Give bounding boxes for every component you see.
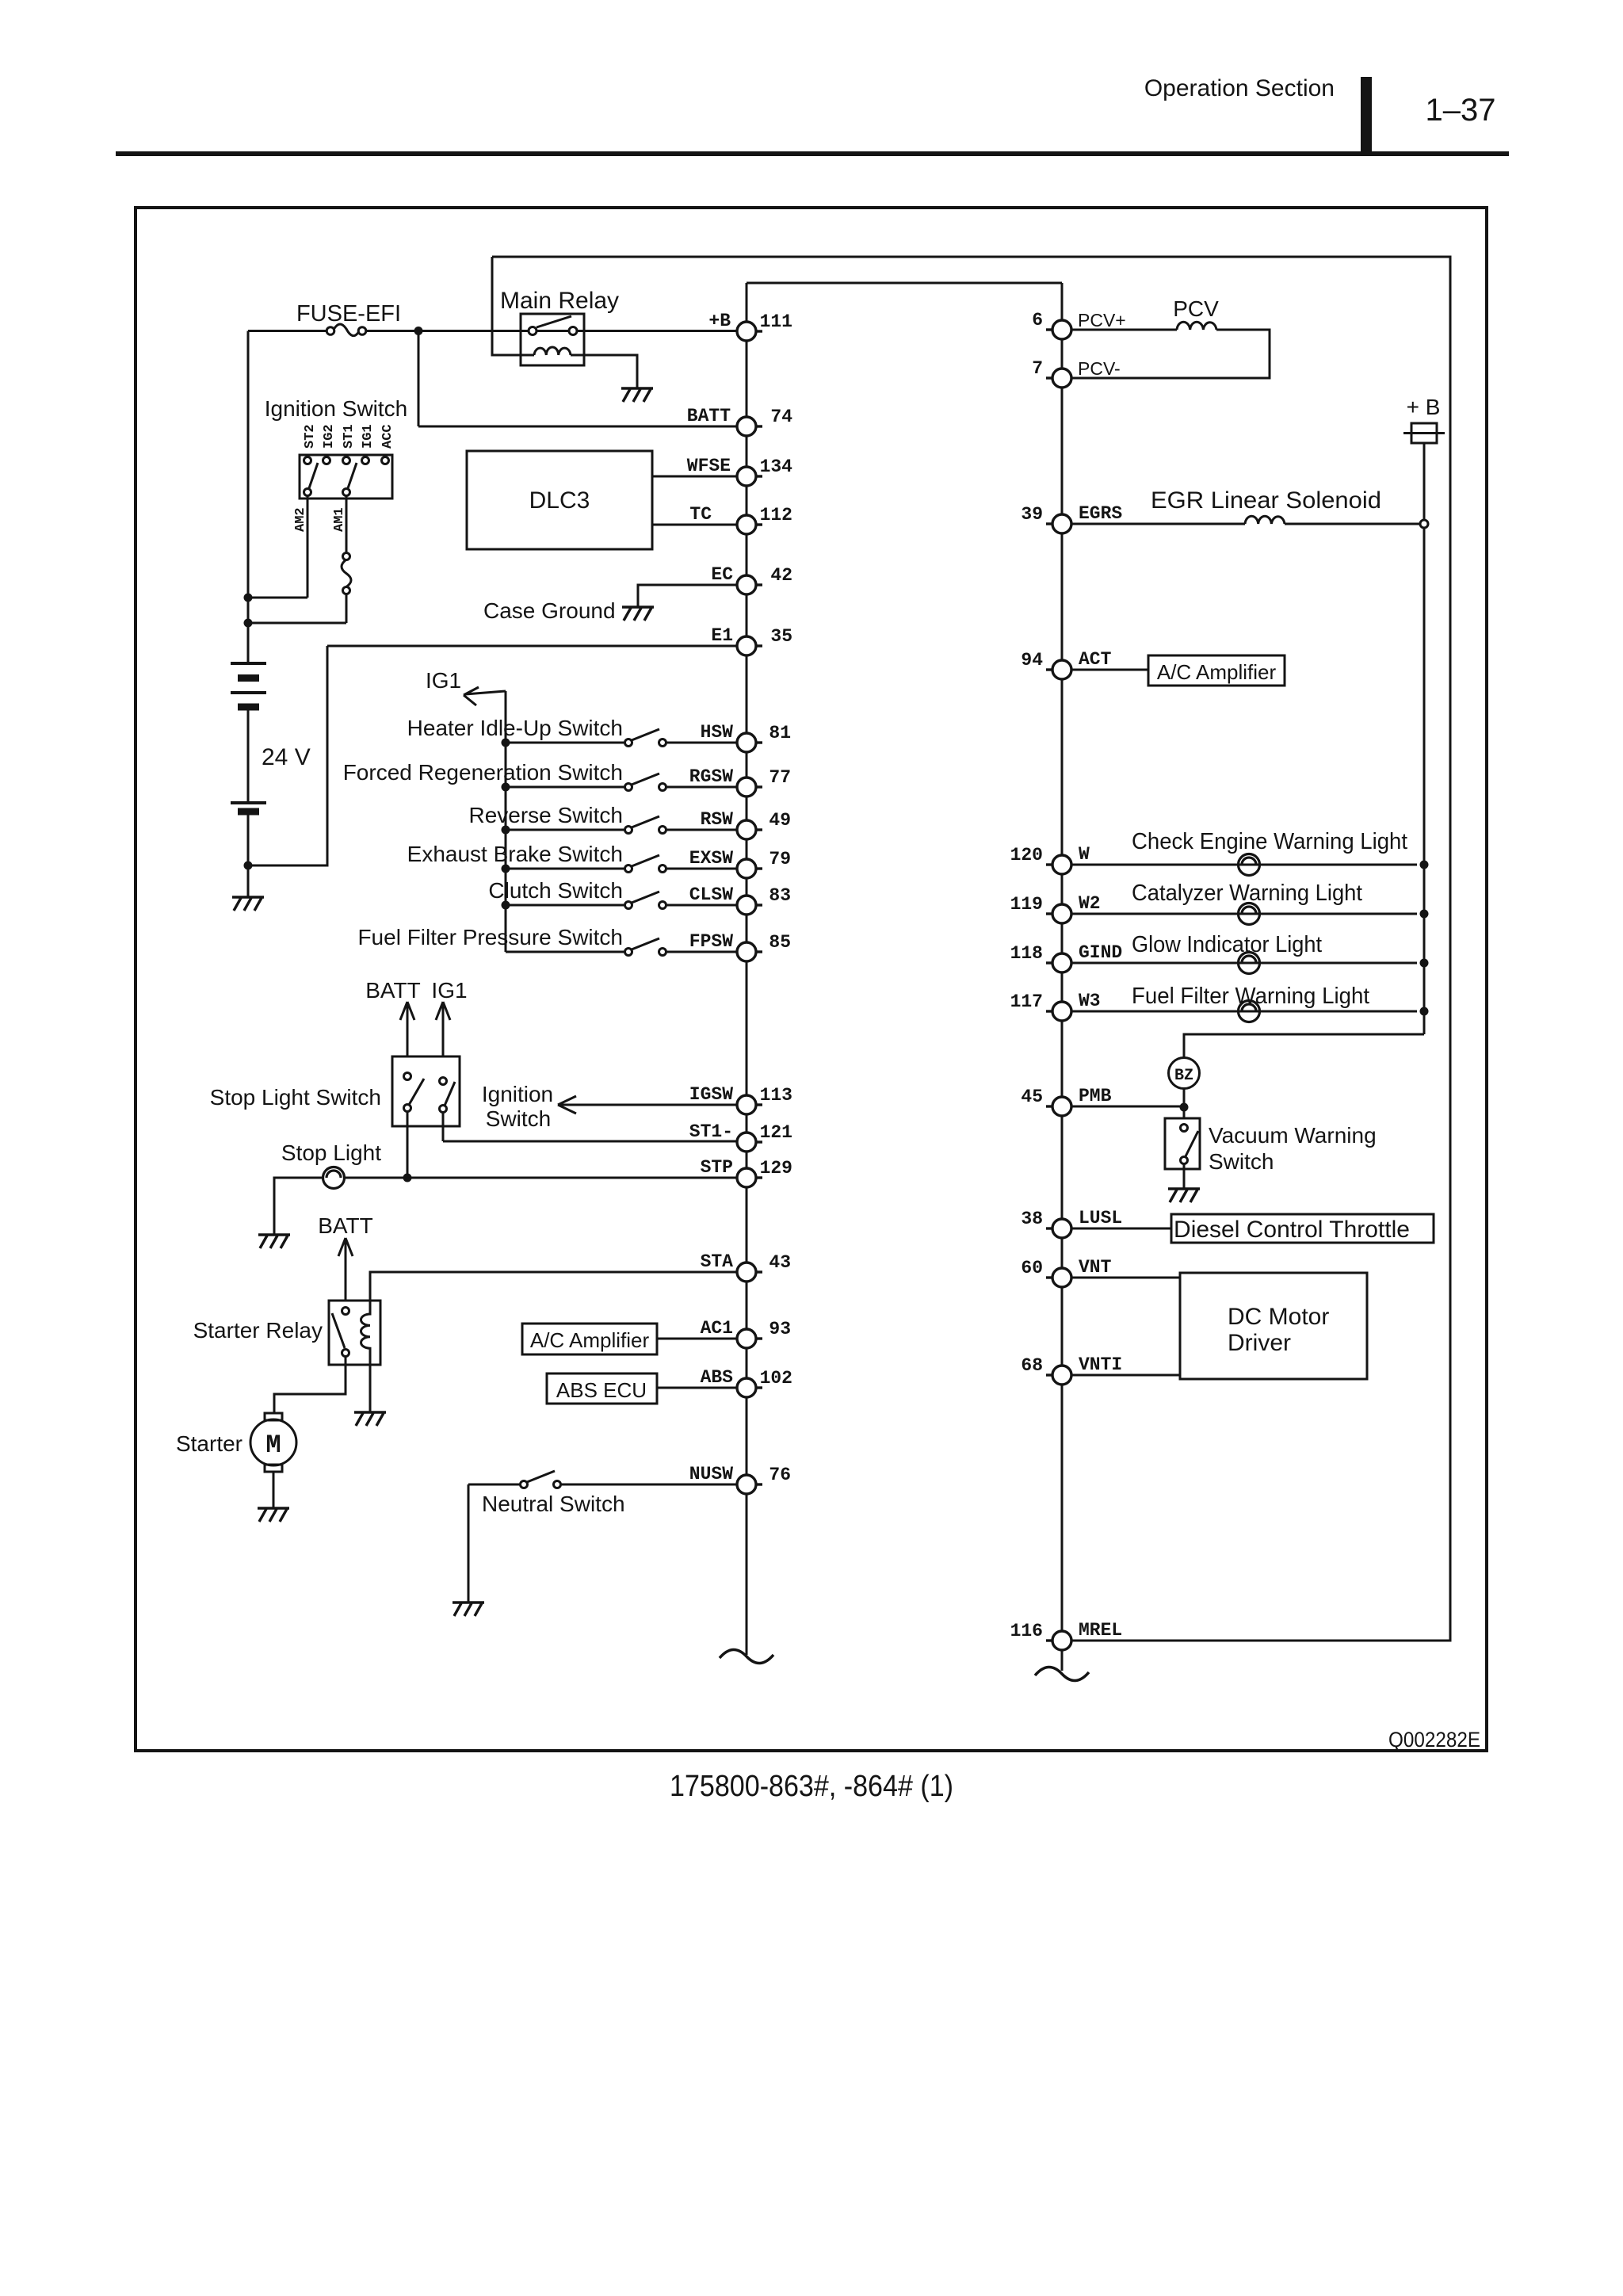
- svg-text:Reverse Switch: Reverse Switch: [468, 803, 623, 827]
- svg-text:6: 6: [1032, 310, 1043, 330]
- svg-text:79: 79: [769, 849, 791, 869]
- svg-text:LUSL: LUSL: [1079, 1208, 1122, 1228]
- svg-text:121: 121: [760, 1122, 792, 1143]
- wire stop light switch to STP: [407, 1112, 409, 1178]
- wire starter relay coil to ground: [369, 1365, 372, 1412]
- lamp fuel filter warning light W3: [1071, 1010, 1417, 1013]
- svg-text:85: 85: [769, 932, 791, 953]
- pin 112 TC: [689, 504, 792, 534]
- pin 121 ST1-: [689, 1121, 792, 1152]
- pin 134 WFSE: [687, 456, 792, 486]
- svg-text:IG1: IG1: [431, 978, 467, 1003]
- arrow ignition switch to IGSW pin 113: [558, 1096, 737, 1114]
- box DLC3: [467, 451, 652, 549]
- svg-text:Ignition Switch: Ignition Switch: [265, 396, 408, 421]
- wire + B feed down to warning lights: [1184, 443, 1424, 1058]
- svg-text:1–37: 1–37: [1426, 93, 1496, 128]
- svg-text:EXSW: EXSW: [689, 848, 733, 869]
- pin 129 STP: [701, 1157, 792, 1187]
- header black tab bar: [1361, 77, 1372, 155]
- pin 79 EXSW: [689, 848, 791, 878]
- svg-text:+ B: + B: [1407, 395, 1441, 419]
- pin 118 GIND: [1010, 942, 1123, 972]
- junction open circle EGRS +B: [1420, 520, 1428, 528]
- svg-text:49: 49: [769, 810, 791, 831]
- pin 81 HSW: [701, 722, 791, 752]
- starter motor M: [265, 1413, 282, 1420]
- wire EC pin 42 to case ground: [638, 585, 737, 607]
- wire EGRS pin 39: [1071, 523, 1245, 525]
- svg-text:93: 93: [769, 1319, 791, 1339]
- ignition switch terminal IG1: [361, 424, 376, 464]
- break squiggle right column: [1035, 1667, 1089, 1680]
- solenoid EGR coil: [1245, 516, 1285, 524]
- pin 85 FPSW: [689, 931, 791, 961]
- svg-text:Heater Idle-Up Switch: Heater Idle-Up Switch: [407, 716, 623, 740]
- wire relay coil to ground: [571, 355, 637, 388]
- svg-text:68: 68: [1021, 1355, 1043, 1376]
- ignition switch pole AM2: [309, 463, 318, 488]
- svg-text:112: 112: [760, 505, 792, 525]
- wire battery internal link: [247, 710, 250, 803]
- pin 83 CLSW: [689, 884, 791, 915]
- arrow IG1 feed stop light switch: [436, 1002, 450, 1056]
- svg-text:PCV-: PCV-: [1078, 358, 1121, 379]
- wire starter relay to starter motor: [274, 1356, 346, 1413]
- pin 38 LUSL: [1021, 1208, 1122, 1238]
- svg-text:IGSW: IGSW: [689, 1084, 733, 1105]
- wire TC pin 112: [652, 524, 737, 526]
- buzzer BZ: [1169, 1058, 1200, 1089]
- main relay contacts and blade: [537, 316, 571, 327]
- svg-text:116: 116: [1010, 1621, 1043, 1641]
- svg-text:35: 35: [770, 626, 792, 647]
- svg-text:Stop Light: Stop Light: [281, 1140, 381, 1165]
- switch RGSW forced regeneration: [502, 783, 510, 792]
- svg-text:DC Motor: DC Motor: [1228, 1304, 1329, 1330]
- pin 111 +B: [708, 311, 792, 341]
- svg-text:42: 42: [770, 565, 792, 586]
- switch RSW reverse: [502, 826, 510, 835]
- pin 6 PCV+: [1032, 310, 1126, 339]
- wire PMB pin 45: [1071, 1089, 1184, 1119]
- svg-text:Clutch Switch: Clutch Switch: [488, 878, 623, 903]
- stop light switch box: [392, 1056, 460, 1126]
- svg-text:W: W: [1079, 844, 1090, 865]
- svg-text:PCV+: PCV+: [1078, 310, 1126, 330]
- svg-text:77: 77: [769, 767, 791, 788]
- pin 68 VNTI: [1021, 1354, 1122, 1385]
- ground case ground: [622, 607, 654, 621]
- svg-text:Exhaust Brake Switch: Exhaust Brake Switch: [407, 842, 623, 866]
- svg-text:74: 74: [770, 407, 792, 427]
- svg-text:Case Ground: Case Ground: [483, 598, 616, 623]
- lamp glow indicator light GIND: [1071, 962, 1417, 965]
- svg-text:113: 113: [760, 1085, 792, 1106]
- solenoid PCV coil: [1177, 322, 1216, 330]
- svg-text:ST1: ST1: [342, 424, 357, 449]
- svg-text:AM2: AM2: [293, 507, 308, 532]
- switch EXSW exhaust brake: [502, 865, 510, 873]
- svg-text:76: 76: [769, 1465, 791, 1485]
- main relay coil: [534, 347, 571, 355]
- wire battery positive feed to fuse: [248, 331, 737, 664]
- svg-text:120: 120: [1010, 845, 1043, 865]
- starter relay box: [329, 1301, 380, 1365]
- fusible link on AM1 wire: [342, 560, 351, 587]
- svg-text:Fuel Filter Pressure Switch: Fuel Filter Pressure Switch: [357, 925, 623, 949]
- header rule: [116, 151, 1509, 156]
- svg-text:117: 117: [1010, 991, 1043, 1012]
- wire stop light switch to ST1- pin 121: [443, 1113, 737, 1141]
- svg-text:94: 94: [1021, 650, 1043, 670]
- svg-text:EC: EC: [711, 564, 733, 585]
- svg-text:TC: TC: [689, 504, 712, 525]
- junction dot fuse wire to BATT: [414, 327, 423, 335]
- svg-text:HSW: HSW: [701, 722, 734, 743]
- break squiggle left column: [720, 1649, 773, 1663]
- ignition switch box: [300, 455, 392, 499]
- svg-text:Starter: Starter: [176, 1431, 242, 1456]
- switch HSW heater idle-up: [502, 739, 510, 747]
- svg-text:AC1: AC1: [701, 1318, 733, 1339]
- svg-text:IG2: IG2: [322, 424, 337, 449]
- pin 7 PCV-: [1032, 358, 1121, 388]
- stop light switch pole 1: [409, 1079, 424, 1105]
- wire ECU top link between columns: [747, 282, 1062, 285]
- svg-text:43: 43: [769, 1252, 791, 1273]
- ground battery: [232, 897, 264, 911]
- wire PCV loop to PCV- pin 7: [1071, 330, 1270, 378]
- svg-text:FUSE-EFI: FUSE-EFI: [296, 301, 401, 327]
- svg-text:M: M: [265, 1431, 281, 1460]
- wire BATT pin 74: [418, 331, 737, 427]
- wire stop light to ground: [274, 1178, 323, 1235]
- lamp check engine warning light W: [1071, 864, 1417, 866]
- battery 24V cells: [231, 663, 266, 812]
- svg-text:BATT: BATT: [365, 978, 420, 1003]
- pin 42 EC: [711, 564, 792, 594]
- switch NUSW neutral: [468, 1471, 737, 1484]
- svg-text:RSW: RSW: [701, 809, 734, 830]
- wire STP pin 129: [344, 1177, 737, 1179]
- svg-text:60: 60: [1021, 1258, 1043, 1278]
- wire E1 pin 35: [248, 646, 737, 865]
- svg-text:ST1-: ST1-: [689, 1121, 733, 1142]
- junction dot AM2 battery: [244, 594, 253, 602]
- svg-text:BATT: BATT: [318, 1213, 372, 1238]
- switch CLSW clutch: [502, 901, 510, 910]
- wire ACT pin 94: [1071, 669, 1148, 671]
- svg-text:Q002282E: Q002282E: [1388, 1728, 1480, 1752]
- svg-text:119: 119: [1010, 894, 1043, 915]
- svg-text:118: 118: [1010, 943, 1043, 964]
- svg-text:EGRS: EGRS: [1079, 503, 1122, 524]
- svg-text:NUSW: NUSW: [689, 1464, 733, 1484]
- wire PCV+ pin 6: [1071, 329, 1177, 331]
- box A/C Amplifier ACT: [1148, 655, 1285, 686]
- relay Main Relay box: [521, 314, 584, 365]
- svg-text:ACC: ACC: [380, 424, 395, 449]
- svg-text:BZ: BZ: [1174, 1067, 1193, 1085]
- svg-text:81: 81: [769, 723, 791, 743]
- svg-text:129: 129: [760, 1158, 792, 1179]
- junction dot AM1 battery: [244, 619, 253, 628]
- svg-text:PMB: PMB: [1079, 1086, 1112, 1106]
- svg-text:83: 83: [769, 885, 791, 906]
- pin 74 BATT: [687, 406, 792, 436]
- svg-text:+B: +B: [708, 311, 731, 331]
- pin 49 RSW: [701, 809, 791, 839]
- pin 60 VNT: [1021, 1257, 1111, 1287]
- pin 93 AC1: [701, 1318, 791, 1348]
- wire MREL pin 116 loop to main relay: [492, 257, 1450, 1641]
- pin 119 W2: [1010, 893, 1101, 923]
- svg-text:W2: W2: [1079, 893, 1101, 914]
- starter relay contacts and blade: [332, 1313, 345, 1348]
- svg-text:STA: STA: [701, 1251, 734, 1272]
- pin 116 MREL: [1010, 1620, 1123, 1650]
- svg-text:A/C Amplifier: A/C Amplifier: [1157, 660, 1277, 684]
- ignition switch pole AM1: [348, 463, 357, 488]
- svg-text:175800-863#, -864# (1): 175800-863#, -864# (1): [670, 1770, 953, 1803]
- svg-text:39: 39: [1021, 504, 1043, 525]
- wire AC1 pin 93: [657, 1338, 737, 1340]
- ground vacuum warning switch: [1168, 1189, 1200, 1202]
- svg-text:Diesel Control Throttle: Diesel Control Throttle: [1174, 1217, 1410, 1243]
- arrow IG1 feed: [464, 687, 506, 705]
- svg-text:111: 111: [760, 311, 792, 332]
- wire VNTI pin 68: [1071, 1374, 1180, 1377]
- stop light bulb: [323, 1167, 345, 1189]
- ignition switch terminal ACC: [380, 424, 395, 464]
- svg-text:ACT: ACT: [1079, 649, 1112, 670]
- svg-text:Glow Indicator Light: Glow Indicator Light: [1132, 932, 1322, 957]
- svg-text:BATT: BATT: [687, 406, 731, 426]
- wire ECU left column vertical: [746, 283, 748, 1655]
- junction dot PMB buzzer: [1180, 1103, 1189, 1112]
- wire WFSE pin 134: [652, 476, 737, 478]
- junction dot STP: [403, 1174, 412, 1182]
- svg-text:A/C Amplifier: A/C Amplifier: [530, 1328, 650, 1352]
- svg-text:102: 102: [760, 1368, 792, 1389]
- lamp catalyzer warning light W2: [1071, 913, 1417, 915]
- ground neutral switch: [453, 1603, 484, 1616]
- svg-text:AM1: AM1: [332, 507, 347, 532]
- svg-text:STP: STP: [701, 1157, 733, 1178]
- svg-text:Ignition: Ignition: [482, 1082, 553, 1106]
- svg-text:Vacuum Warning: Vacuum Warning: [1209, 1123, 1377, 1148]
- svg-text:24 V: 24 V: [262, 744, 311, 770]
- wire AM2 to battery: [248, 495, 307, 598]
- box ABS ECU: [547, 1373, 657, 1404]
- pin 102 ABS: [701, 1367, 792, 1397]
- wire neutral switch to ground: [468, 1484, 470, 1603]
- svg-text:Switch: Switch: [1209, 1149, 1274, 1174]
- box DC Motor Driver: [1180, 1273, 1367, 1379]
- svg-text:ABS ECU: ABS ECU: [556, 1378, 647, 1402]
- pin 43 STA: [701, 1251, 791, 1282]
- pin 45 PMB: [1021, 1086, 1111, 1116]
- svg-text:134: 134: [760, 457, 793, 477]
- svg-text:45: 45: [1021, 1087, 1043, 1107]
- box A/C Amplifier AC1: [522, 1324, 657, 1354]
- svg-text:Switch: Switch: [486, 1106, 551, 1131]
- svg-text:PCV: PCV: [1173, 296, 1219, 321]
- svg-text:38: 38: [1021, 1209, 1043, 1229]
- svg-text:EGR Linear Solenoid: EGR Linear Solenoid: [1151, 487, 1381, 514]
- pin 76 NUSW: [689, 1464, 791, 1494]
- svg-text:Driver: Driver: [1228, 1330, 1291, 1356]
- svg-text:IG1: IG1: [361, 424, 376, 449]
- ground main relay coil: [621, 388, 653, 402]
- svg-text:RGSW: RGSW: [689, 766, 733, 787]
- wire ABS pin 102: [657, 1387, 737, 1389]
- svg-text:Neutral Switch: Neutral Switch: [482, 1492, 625, 1516]
- ignition switch terminal IG2: [322, 424, 337, 464]
- wire LUSL pin 38: [1071, 1228, 1171, 1230]
- ground starter relay: [354, 1412, 386, 1426]
- pin 39 EGRS: [1021, 503, 1122, 533]
- outer diagram border: [136, 208, 1487, 1751]
- svg-text:WFSE: WFSE: [687, 456, 731, 476]
- junction dot battery E1: [244, 861, 253, 870]
- wire starter motor to ground: [273, 1472, 275, 1508]
- wire ECU right column vertical: [1061, 283, 1064, 1671]
- svg-text:E1: E1: [711, 625, 733, 646]
- switch FPSW fuel filter pressure: [506, 938, 737, 952]
- wire EGR coil to +B line: [1285, 523, 1419, 525]
- wire vacuum switch to ground: [1183, 1163, 1186, 1189]
- svg-text:VNTI: VNTI: [1079, 1354, 1122, 1375]
- fuse + B supply: [1411, 423, 1437, 443]
- pin 35 E1: [711, 625, 792, 655]
- arrow BATT feed stop light switch: [400, 1002, 414, 1056]
- svg-text:W3: W3: [1079, 991, 1101, 1011]
- svg-text:ABS: ABS: [701, 1367, 734, 1388]
- pin 94 ACT: [1021, 649, 1111, 679]
- svg-text:DLC3: DLC3: [529, 487, 590, 514]
- stop light switch pole 2: [445, 1082, 455, 1106]
- svg-text:Starter Relay: Starter Relay: [193, 1318, 323, 1343]
- ground stop light: [258, 1235, 290, 1248]
- ignition switch terminal ST1: [342, 424, 357, 464]
- svg-text:VNT: VNT: [1079, 1257, 1112, 1278]
- svg-text:MREL: MREL: [1079, 1620, 1122, 1641]
- svg-text:Forced Regeneration Switch: Forced Regeneration Switch: [343, 760, 623, 785]
- pin 120 W: [1010, 844, 1090, 874]
- box Diesel Control Throttle: [1171, 1214, 1434, 1243]
- wire AM1 to battery: [248, 495, 346, 623]
- pin 113 IGSW: [689, 1084, 792, 1114]
- arrow BATT feed starter relay: [338, 1238, 353, 1301]
- fuse FUSE-EFI: [334, 324, 359, 336]
- svg-text:7: 7: [1032, 358, 1043, 379]
- svg-text:ST2: ST2: [303, 424, 318, 449]
- starter relay coil: [361, 1301, 370, 1365]
- ignition switch terminal ST2: [303, 424, 318, 464]
- svg-text:Stop Light Switch: Stop Light Switch: [210, 1085, 381, 1110]
- ground starter motor: [258, 1508, 289, 1522]
- wire battery negative to ground: [247, 815, 250, 897]
- switch vacuum warning box: [1165, 1118, 1200, 1169]
- svg-text:Operation Section: Operation Section: [1144, 75, 1335, 101]
- svg-text:IG1: IG1: [426, 668, 461, 693]
- wire STA pin 43: [370, 1272, 737, 1301]
- wire IG1 switch column: [505, 691, 507, 952]
- svg-text:Check Engine Warning Light: Check Engine Warning Light: [1132, 829, 1407, 854]
- pin 77 RGSW: [689, 766, 791, 797]
- pin 117 W3: [1010, 991, 1101, 1021]
- svg-text:Main Relay: Main Relay: [500, 288, 619, 314]
- wire VNT pin 60: [1071, 1277, 1180, 1279]
- svg-text:CLSW: CLSW: [689, 884, 733, 905]
- svg-text:GIND: GIND: [1079, 942, 1122, 963]
- svg-text:FPSW: FPSW: [689, 931, 733, 952]
- wire MREL feed to relay coil: [492, 257, 534, 355]
